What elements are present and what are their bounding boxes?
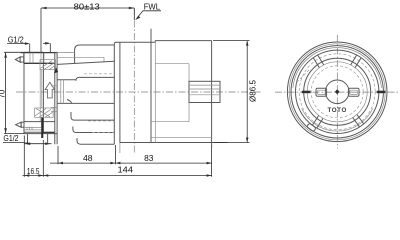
- label G1/2 top: [7, 34, 50, 52]
- plate feet: [24, 134, 52, 145]
- svg-text:FWL: FWL: [144, 2, 161, 12]
- motor internals: [151, 64, 212, 138]
- rib NE: [351, 55, 362, 68]
- svg-text:Ø86.5: Ø86.5: [248, 80, 258, 102]
- fitting G1/2 top: [15, 53, 56, 64]
- svg-text:83: 83: [144, 153, 154, 163]
- front view crosshair horizontal: [275, 91, 399, 93]
- center mark: [335, 89, 340, 94]
- svg-text:TOTO: TOTO: [328, 107, 347, 114]
- hatched boss bottom: [35, 108, 54, 117]
- dimension 48: [50, 145, 115, 164]
- hub wing right: [348, 88, 359, 96]
- centerline of pump axis: [16, 91, 262, 93]
- fitting G1/2 bottom: [16, 122, 55, 133]
- dimension 16.5: [23, 136, 44, 177]
- FWL water-level line: [133, 8, 135, 154]
- svg-text:G1/2: G1/2: [3, 133, 19, 143]
- svg-text:144: 144: [118, 164, 134, 174]
- terminal stub: [189, 81, 220, 102]
- hidden line top: [84, 73, 114, 75]
- mounting plate: [24, 52, 57, 133]
- svg-text:48: 48: [83, 153, 93, 163]
- inner ring circles: [304, 58, 371, 125]
- rib SE: [353, 115, 364, 128]
- drain pipe thick L: [41, 117, 55, 138]
- svg-text:70: 70: [0, 89, 7, 98]
- manifold pipe: [40, 70, 42, 122]
- pump rear wall: [114, 42, 116, 144]
- svg-text:16.5: 16.5: [27, 166, 40, 176]
- hub wing left: [316, 88, 327, 96]
- rib NW: [313, 55, 324, 68]
- dimension 144: [43, 145, 211, 177]
- hatched boss top: [40, 60, 58, 74]
- hidden lines bottom: [88, 120, 114, 122]
- FWL label: [134, 2, 161, 21]
- outer rim circles: [287, 42, 387, 142]
- dimension Ø86.5: [213, 41, 258, 143]
- pump volute cylinders bottom: [71, 112, 114, 144]
- side slot right: [377, 91, 386, 94]
- motor front face: [119, 42, 121, 142]
- diagonal centerline NW: [297, 69, 311, 83]
- dimension 70: [0, 52, 24, 133]
- label G1/2 bottom: [3, 133, 31, 145]
- front view crosshair vertical: [336, 35, 338, 149]
- dimension 80±13: [41, 1, 134, 52]
- rib SW: [312, 116, 323, 129]
- dimension 83: [115, 153, 211, 165]
- hub hidden circle: [311, 66, 363, 118]
- hub circle: [325, 80, 349, 104]
- svg-text:80±13: 80±13: [74, 1, 101, 11]
- suction pipe: [51, 80, 114, 112]
- upper rim arc: [293, 48, 382, 88]
- pump volute cylinders top: [57, 45, 114, 81]
- svg-text:G1/2: G1/2: [8, 34, 24, 44]
- lower rim arc: [302, 108, 373, 131]
- notch SW: [307, 123, 317, 132]
- bolt circle dashed: [299, 54, 375, 130]
- motor body: [116, 29, 228, 148]
- side slot left: [302, 91, 311, 94]
- pump flange plate: [55, 52, 57, 145]
- flow arrow symbol: [45, 82, 55, 98]
